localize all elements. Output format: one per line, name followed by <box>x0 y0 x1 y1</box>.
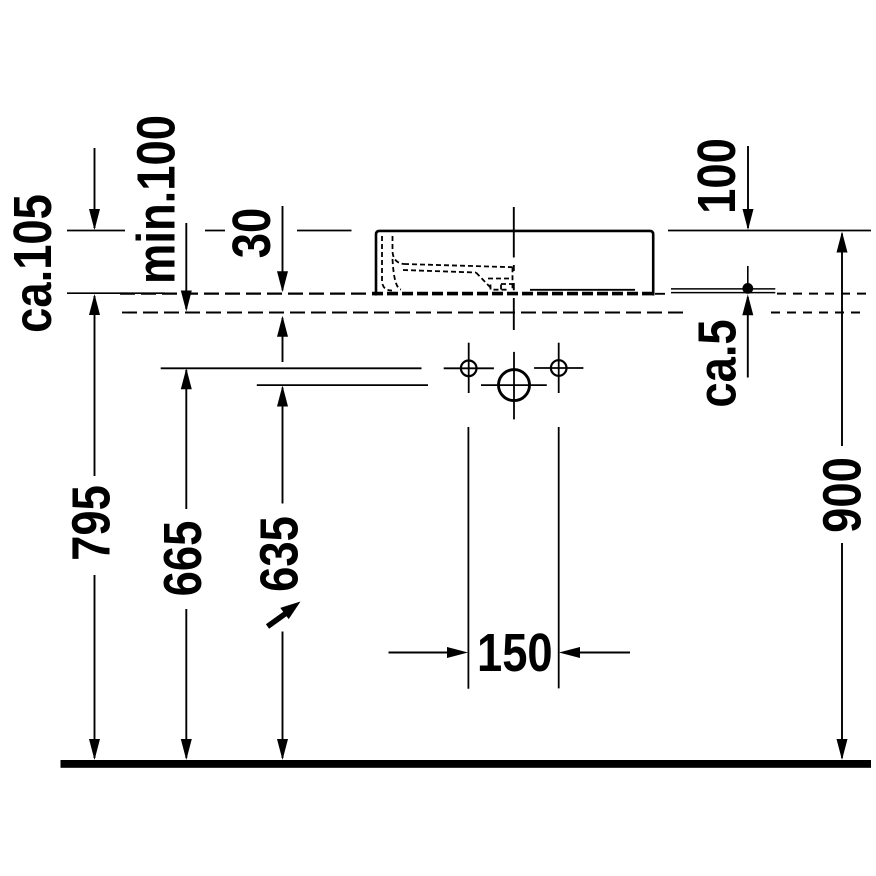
reference dot on ledge <box>742 283 753 294</box>
shelf edge line, y=385.1 <box>257 384 428 386</box>
hidden drain/overflow outline (dashed) <box>382 236 513 291</box>
dimension line column x=282.5 (30 / 635) <box>282 206 284 758</box>
dimension line column x=94.5 (ca.105 / 795) <box>94 148 96 758</box>
dimension arrow x=748 (100) <box>747 146 749 228</box>
dimension arrow x=747.8 (ca.5) <box>747 297 749 378</box>
svg-text:900: 900 <box>812 457 873 533</box>
150 dimension arrows (outside pointing) <box>389 652 451 654</box>
svg-text:30: 30 <box>221 208 282 258</box>
svg-text:795: 795 <box>61 485 122 561</box>
washbasin body (side view box) <box>376 231 653 296</box>
crosshair lines of holes <box>444 343 584 420</box>
svg-text:min.100: min.100 <box>126 115 187 284</box>
faucet hole left (circle) <box>461 361 477 377</box>
dashed counter-bottom line (30 mm below), y=312.5 <box>122 312 866 314</box>
drain hole center (circle) <box>499 370 530 401</box>
basin top reference line (900 level), y=230.5 <box>67 230 871 232</box>
dimension line column x=842 (900) <box>841 234 843 759</box>
extension lines for 150 dimension <box>468 427 558 689</box>
mounting ledge double line (ca.5 step) <box>671 289 775 293</box>
dimension line column x=186.3 (min.100 / 665) <box>185 223 187 758</box>
svg-text:635: 635 <box>249 516 310 592</box>
svg-text:665: 665 <box>152 521 213 597</box>
faucet hole right (circle) <box>551 360 567 376</box>
basin center axis line <box>513 207 515 330</box>
shelf edge line, y=368.3 <box>161 367 422 369</box>
floor line (thick) <box>61 760 872 768</box>
dashed counter-top line, y=293.6 <box>120 292 868 294</box>
svg-text:150: 150 <box>477 622 553 683</box>
counter top solid segment (795 level), y=293.2 <box>67 292 165 294</box>
adjustable-height annotation arrow (diagonal, near 635) <box>268 613 288 627</box>
tick above dot <box>747 266 749 284</box>
svg-text:ca.105: ca.105 <box>2 194 63 333</box>
basin inner floor line <box>530 289 635 291</box>
svg-text:100: 100 <box>686 138 747 214</box>
svg-text:ca.5: ca.5 <box>687 319 748 407</box>
